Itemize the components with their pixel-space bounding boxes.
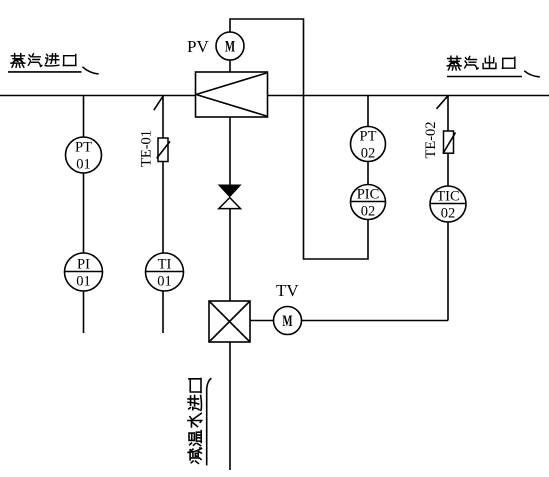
svg-text:PV: PV	[187, 37, 209, 56]
svg-text:02: 02	[441, 205, 456, 221]
svg-text:TE-01: TE-01	[139, 130, 155, 167]
svg-text:01: 01	[157, 273, 172, 289]
svg-text:M: M	[225, 37, 235, 55]
svg-text:01: 01	[76, 156, 91, 172]
svg-text:TIC: TIC	[436, 188, 459, 204]
svg-text:PT: PT	[75, 139, 92, 155]
svg-text:PT: PT	[360, 128, 377, 144]
svg-text:M: M	[282, 312, 292, 330]
svg-text:02: 02	[361, 203, 376, 219]
svg-text:TV: TV	[276, 281, 299, 300]
svg-text:PIC: PIC	[357, 186, 380, 202]
svg-text:TE-02: TE-02	[423, 121, 439, 158]
svg-text:PI: PI	[77, 256, 90, 272]
svg-text:02: 02	[361, 145, 376, 161]
svg-text:01: 01	[76, 273, 91, 289]
svg-text:TI: TI	[158, 256, 172, 272]
